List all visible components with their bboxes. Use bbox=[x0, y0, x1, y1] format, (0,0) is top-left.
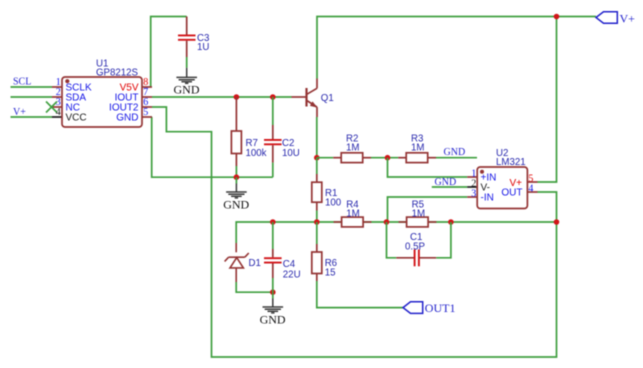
wire C4 bottom stub bbox=[272, 278, 274, 292]
resistor R1 bbox=[316, 158, 318, 174]
svg-text:GND: GND bbox=[444, 147, 466, 158]
svg-text:GP8212S: GP8212S bbox=[96, 68, 139, 79]
wire R7 bottom to gnd row bbox=[235, 166, 237, 177]
svg-text:V+: V+ bbox=[13, 107, 26, 118]
resistor R3 bbox=[398, 153, 436, 163]
ground symbol bottom bbox=[272, 292, 274, 298]
wire SCL to U1 pin1 bbox=[11, 86, 53, 88]
svg-text:GND: GND bbox=[174, 82, 200, 96]
capacitor C3 bbox=[178, 17, 196, 58]
node junction R2/R3 bbox=[385, 155, 391, 161]
wire junction down to U2 pin1 bbox=[388, 158, 468, 177]
IC U1 GP8212S bbox=[52, 77, 152, 127]
wire C1 right up to row bbox=[436, 222, 451, 258]
svg-text:22U: 22U bbox=[283, 269, 301, 280]
op-amp U2 LM321 bbox=[467, 167, 537, 209]
svg-text:1M: 1M bbox=[346, 209, 359, 220]
svg-text:3: 3 bbox=[471, 189, 476, 200]
wire R2 to R3 junction bbox=[371, 157, 398, 159]
svg-text:VCC: VCC bbox=[66, 113, 87, 124]
node junction R1 bottom bbox=[314, 219, 320, 225]
node junction R5/C1 bbox=[448, 219, 454, 225]
capacitor C2 bbox=[272, 97, 274, 125]
svg-text:GND: GND bbox=[116, 113, 138, 124]
svg-text:D1: D1 bbox=[249, 258, 261, 269]
wire D1 bottom to C4 bottom bbox=[236, 282, 273, 292]
resistor R2 bbox=[333, 153, 371, 163]
svg-text:LM321: LM321 bbox=[496, 157, 526, 168]
wire V+ to U1 pin4 VCC bbox=[11, 116, 53, 118]
node junction C4 top bbox=[270, 219, 276, 225]
node junction gnd row bbox=[234, 174, 240, 180]
svg-text:1M: 1M bbox=[412, 209, 425, 220]
wire IOUT2 loop: U1 pin6 down-around bottom rail up to U2 pin4 bbox=[152, 107, 557, 357]
node junction top rail bbox=[554, 14, 560, 20]
zener diode D1 bbox=[225, 243, 249, 282]
wire Q1 emitter down bbox=[316, 117, 318, 158]
node junction OUT column bbox=[554, 219, 560, 225]
svg-text:GND: GND bbox=[435, 177, 457, 188]
net flag OUT1 bbox=[403, 302, 423, 314]
svg-text:OUT1: OUT1 bbox=[425, 301, 456, 315]
capacitor C4 bbox=[272, 222, 274, 249]
wire R1 bottom bbox=[316, 211, 318, 223]
svg-text:GND: GND bbox=[223, 197, 249, 211]
svg-text:100k: 100k bbox=[246, 148, 267, 159]
wire main bottom row y=222 (D1 top to V+ column) bbox=[236, 222, 556, 243]
wire emitter row to R2 bbox=[317, 157, 333, 159]
wire R6 bottom to OUT1 flag bbox=[317, 281, 403, 308]
wire V+ top rail to Q1 collector and V+ flag bbox=[317, 17, 596, 79]
svg-text:GND: GND bbox=[260, 312, 286, 326]
svg-text:-IN: -IN bbox=[481, 193, 494, 204]
svg-text:OUT: OUT bbox=[501, 188, 522, 199]
svg-text:15: 15 bbox=[325, 268, 336, 279]
wire U1 pin5 GND down and right to ground node bbox=[152, 117, 273, 177]
wire V5V net: U1 pin8 up and over to C3 top bbox=[151, 17, 187, 88]
wire C3 bottom to ground bbox=[186, 57, 188, 68]
svg-text:V+: V+ bbox=[620, 12, 636, 26]
wire GND net to U2 pin2 bbox=[432, 186, 467, 188]
svg-text:4: 4 bbox=[528, 184, 533, 195]
svg-text:SCL: SCL bbox=[13, 76, 31, 87]
svg-text:1M: 1M bbox=[411, 143, 424, 154]
wire R3 to GND net label bbox=[436, 157, 477, 159]
transistor Q1 bbox=[292, 79, 318, 118]
svg-text:1M: 1M bbox=[346, 143, 359, 154]
resistor R7 bbox=[231, 97, 241, 166]
wire IOUT row: U1 pin7 to Q1 base bbox=[152, 96, 292, 98]
svg-text:100: 100 bbox=[325, 197, 342, 208]
wire V+ rail down to U2 pin5 bbox=[538, 17, 557, 183]
svg-text:0.5P: 0.5P bbox=[405, 242, 425, 253]
svg-text:5: 5 bbox=[143, 107, 148, 118]
node junction R7 top bbox=[234, 94, 240, 100]
svg-text:Q1: Q1 bbox=[321, 93, 334, 104]
resistor R5 bbox=[399, 217, 437, 227]
capacitor C1 parallel branch bbox=[387, 222, 397, 258]
net flag V+ top right bbox=[596, 12, 617, 23]
svg-text:10U: 10U bbox=[282, 148, 300, 159]
wire U2 pin3 to feedback column bbox=[388, 197, 468, 222]
ground symbol under C3 bbox=[176, 68, 197, 84]
wire C2 bottom bbox=[272, 163, 274, 178]
node junction R4/R5 bbox=[384, 219, 390, 225]
no-connect X on U1 pin3 bbox=[46, 102, 57, 113]
node junction emitter row bbox=[314, 155, 320, 161]
resistor R4 bbox=[334, 217, 372, 227]
svg-text:4: 4 bbox=[56, 107, 61, 118]
ground symbol mid bbox=[235, 177, 237, 183]
node junction C4 bottom bbox=[270, 289, 276, 295]
node junction C2 top bbox=[270, 94, 276, 100]
svg-text:1U: 1U bbox=[197, 42, 209, 53]
wire SDA to U1 pin2 bbox=[11, 96, 53, 98]
resistor R6 bbox=[316, 222, 318, 244]
